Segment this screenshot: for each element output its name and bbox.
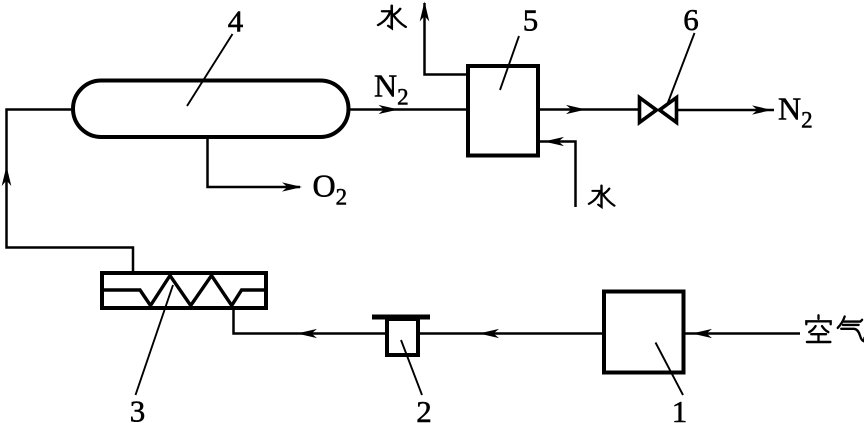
svg-text:4: 4: [228, 4, 244, 39]
svg-text:N2: N2: [778, 91, 813, 133]
svg-text:5: 5: [523, 3, 539, 38]
svg-text:3: 3: [130, 394, 146, 423]
svg-text:1: 1: [672, 394, 688, 423]
svg-text:O2: O2: [313, 168, 348, 210]
svg-text:2: 2: [416, 394, 432, 423]
svg-text:N2: N2: [374, 68, 409, 110]
svg-text:6: 6: [683, 2, 699, 37]
